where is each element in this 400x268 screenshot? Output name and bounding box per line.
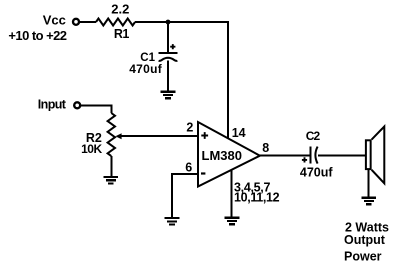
wire Vcc to R1 [80, 21, 97, 23]
label - (inverting input) [201, 172, 205, 174]
svg-text:10,11,12: 10,11,12 [234, 191, 280, 205]
op-amp U1 LM380 triangle [198, 122, 260, 187]
svg-text:10K: 10K [81, 142, 102, 156]
svg-text:14: 14 [232, 126, 246, 140]
svg-text:Power: Power [344, 249, 382, 263]
svg-text:6: 6 [185, 161, 192, 175]
speaker SP1 [366, 127, 384, 184]
wire C1 to ground [167, 61, 169, 92]
ground (speaker) [362, 198, 377, 204]
terminal Vcc [73, 19, 79, 25]
svg-text:Output: Output [344, 233, 386, 247]
svg-text:Input: Input [38, 97, 67, 111]
junction node [166, 20, 171, 25]
wire down to pin 14 [227, 21, 229, 139]
wire R2 to ground [110, 156, 112, 177]
svg-text:8: 8 [262, 141, 269, 155]
wire bottom pins to ground [231, 169, 233, 218]
resistor R1 [96, 19, 135, 26]
svg-text:2.2: 2.2 [111, 2, 129, 17]
wire C2 to speaker [318, 155, 365, 157]
ground (R2) [104, 177, 119, 183]
svg-text:R1: R1 [114, 27, 129, 41]
wire wiper to pin 2 [121, 135, 198, 137]
terminal Input [74, 102, 80, 108]
wire Input to R2 [81, 106, 112, 114]
svg-text:470uf: 470uf [129, 62, 163, 76]
capacitor C1 [159, 44, 178, 61]
wire speaker to ground [368, 170, 370, 198]
svg-text:LM380: LM380 [202, 148, 242, 163]
ground (pin 6) [165, 218, 180, 224]
svg-text:C2: C2 [306, 129, 321, 143]
wire junction to C1 [167, 22, 169, 52]
label + (non-inverting input) [201, 132, 208, 139]
wire R1 to corner [135, 21, 229, 23]
wiper arrow of R2 [115, 133, 121, 139]
resistor R2 (potentiometer) [108, 113, 115, 156]
wire pin 8 to C2 [259, 155, 310, 157]
svg-text:+10 to +22: +10 to +22 [8, 28, 66, 43]
svg-text:Vcc: Vcc [43, 13, 66, 28]
svg-text:470uf: 470uf [300, 166, 333, 180]
capacitor C2 [302, 147, 318, 164]
ground (C1) [161, 92, 176, 98]
svg-text:2: 2 [186, 120, 193, 134]
ground (bottom pins) [225, 218, 240, 224]
wire pin 6 to ground [172, 174, 198, 218]
